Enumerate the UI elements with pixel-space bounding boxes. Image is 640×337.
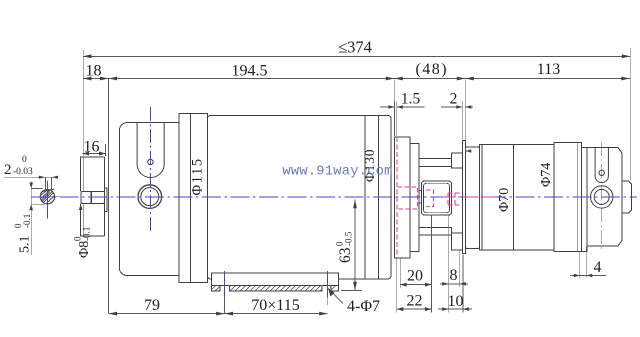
dimension 1.5: [380, 91, 425, 137]
coupling upper arm: [419, 158, 451, 166]
svg-text:79: 79: [144, 297, 160, 314]
gearbox body Φ74 section: [554, 143, 581, 252]
mounting foot plate: [212, 273, 339, 285]
gearbox end cap: [587, 147, 622, 246]
svg-text:22: 22: [407, 293, 423, 310]
red axis overlay: [443, 196, 497, 198]
svg-text:18: 18: [86, 63, 102, 80]
mounting flange ring Φ115: [179, 113, 208, 282]
label Φ70: [497, 188, 512, 212]
rear brake flange step: [410, 144, 419, 252]
yoke upper stub: [451, 153, 462, 168]
label Φ8 -0.1 shaft diameter: [73, 204, 93, 258]
dimension 5.1 -0.1 vertical: [13, 182, 45, 256]
hidden red bracket in hub: [426, 190, 434, 207]
dimension 22: [397, 293, 432, 312]
extension lines bottom dims: [225, 216, 463, 314]
front plate slot: [137, 123, 164, 178]
coupling lower arm: [419, 228, 451, 235]
dimension 2 -0.03 flat width: [4, 155, 58, 192]
motor body cylinder: [208, 116, 392, 279]
coupling hub block: [422, 181, 452, 215]
gearbox body Φ70 section: [480, 145, 554, 250]
shaft collar: [105, 188, 108, 212]
label Φ74: [539, 163, 554, 187]
svg-text:0: 0: [22, 155, 27, 165]
svg-text:16: 16: [84, 139, 100, 156]
main axis centerline blue: [31, 196, 637, 198]
svg-text:Φ8: Φ8: [77, 241, 92, 258]
svg-text:-0.1: -0.1: [82, 227, 92, 241]
end cap slot hole: [599, 170, 604, 175]
watermark www.91way.com: [282, 165, 392, 180]
dimension 8: [440, 267, 468, 286]
gearbox seam: [513, 145, 515, 250]
svg-text:1.5: 1.5: [401, 91, 421, 108]
dimension 10: [438, 293, 472, 311]
end cap slot: [595, 147, 608, 182]
svg-text:-0.03: -0.03: [13, 167, 33, 177]
svg-text:Φ115: Φ115: [190, 157, 206, 195]
end cap centerline vertical: [601, 142, 603, 251]
svg-text:(48): (48): [415, 61, 448, 78]
end cap bearing circles: [591, 186, 613, 208]
svg-text:8: 8: [450, 267, 458, 284]
svg-text:70×115: 70×115: [251, 297, 299, 314]
gearbox input plate: [462, 141, 465, 254]
dimension 79: [109, 297, 225, 316]
svg-text:www.91way.com: www.91way.com: [282, 165, 392, 180]
extension line front face: [108, 79, 110, 313]
svg-text:4: 4: [594, 259, 602, 276]
svg-text:20: 20: [407, 268, 423, 285]
dimension 63 -0.5 axis to mounting face: [335, 200, 363, 291]
dimension ≤374 overall: [83, 38, 630, 59]
svg-text:113: 113: [537, 61, 560, 78]
foot hole centerline right: [327, 271, 329, 298]
svg-text:2: 2: [4, 162, 12, 178]
gearbox neck: [581, 147, 587, 251]
detail crosshair centerlines: [31, 181, 66, 219]
svg-text:10: 10: [448, 293, 464, 310]
svg-text:-0.5: -0.5: [344, 231, 354, 246]
body seam line Φ130 ring: [364, 116, 366, 279]
extension lines top dims: [394, 48, 630, 181]
dimension 4 output: [570, 247, 606, 278]
svg-text:Φ74: Φ74: [539, 163, 554, 187]
hidden red line gearbox face: [461, 170, 463, 225]
dimension 2: [441, 91, 473, 153]
dimension row 18 194.5 (48) 113: [83, 61, 630, 80]
front hole centerline vertical: [149, 107, 151, 234]
foot hole centerline left: [224, 271, 226, 298]
hidden line red brake face: [396, 137, 398, 258]
svg-text:≤374: ≤374: [338, 38, 372, 57]
label Φ115: [190, 157, 206, 195]
output terminal protrusion: [622, 181, 632, 213]
motor front end plate: [119, 123, 179, 276]
yoke lower stub: [451, 233, 462, 250]
slot small hole: [148, 159, 153, 164]
svg-text:63: 63: [337, 247, 354, 263]
dimension 70×115: [225, 297, 328, 316]
svg-text:-0.1: -0.1: [22, 214, 32, 228]
svg-text:2: 2: [450, 91, 458, 108]
foot hatched base: [210, 286, 338, 291]
rear brake flange outer: [394, 137, 410, 258]
detail view shaft cross-section hatched circle: [40, 189, 54, 204]
svg-text:194.5: 194.5: [232, 63, 268, 80]
motor shaft: [81, 191, 104, 203]
hidden red key in flange: [398, 187, 418, 209]
svg-text:Φ70: Φ70: [497, 188, 512, 212]
leader 4-Φ7: [328, 288, 380, 315]
gearbox front ring: [465, 147, 479, 249]
label Φ130: [362, 149, 377, 182]
hidden red coupling sleeve: [448, 193, 462, 205]
motor rear cap seam: [378, 116, 380, 279]
front bearing boss: [81, 157, 105, 236]
svg-text:5.1: 5.1: [18, 236, 33, 254]
front plate threaded hole: [138, 185, 162, 209]
dimension 20: [400, 268, 431, 287]
dimension 16 boss length: [83, 50, 106, 156]
coupling shaft stub: [419, 191, 421, 204]
svg-text:4-Φ7: 4-Φ7: [347, 298, 380, 315]
